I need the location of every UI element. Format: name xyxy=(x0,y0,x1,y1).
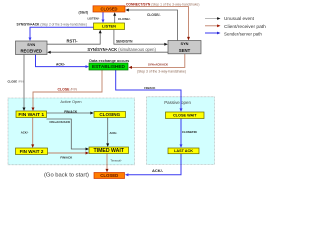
svg-text:ACK/-: ACK/- xyxy=(152,168,164,173)
svg-text:SYN+ACK/ACK: SYN+ACK/ACK xyxy=(148,63,168,67)
svg-text:Unusual event: Unusual event xyxy=(224,16,255,21)
svg-text:SYN/SYN+ACK: SYN/SYN+ACK xyxy=(87,47,117,52)
svg-text:FIN/ACK: FIN/ACK xyxy=(64,110,78,114)
svg-text:FIN WAIT 1: FIN WAIT 1 xyxy=(18,112,44,118)
svg-text:/FIN: /FIN xyxy=(18,80,23,84)
svg-text:CLOSE/FIN: CLOSE/FIN xyxy=(182,130,197,134)
svg-text:SYN/SYN+ACK: SYN/SYN+ACK xyxy=(17,23,41,27)
svg-text:Sender/server path: Sender/server path xyxy=(224,31,262,36)
svg-text:SENT: SENT xyxy=(179,48,191,53)
svg-text:CLOSED: CLOSED xyxy=(101,6,118,11)
svg-text:RST/-: RST/- xyxy=(67,38,79,43)
svg-text:ACK/-: ACK/- xyxy=(21,130,29,134)
svg-text:FIN/ACK: FIN/ACK xyxy=(60,156,73,160)
svg-text:(simultaneous open): (simultaneous open) xyxy=(118,47,156,52)
svg-text:CLOSED: CLOSED xyxy=(100,173,118,178)
svg-text:ACK/-: ACK/- xyxy=(56,62,65,66)
svg-text:Client/receiver path: Client/receiver path xyxy=(224,24,266,30)
svg-text:(Go back to start): (Go back to start) xyxy=(44,173,89,179)
svg-text:CONNECT/SYN: CONNECT/SYN xyxy=(126,2,151,6)
svg-text:TIMED WAIT: TIMED WAIT xyxy=(94,148,125,154)
svg-text:/FIN: /FIN xyxy=(70,88,77,92)
svg-text:CLOSE: CLOSE xyxy=(8,80,18,84)
svg-text:LISTEN/-: LISTEN/- xyxy=(88,16,100,20)
svg-text:CLOSE/-: CLOSE/- xyxy=(118,17,130,21)
svg-text:CLOSE/-: CLOSE/- xyxy=(147,13,161,17)
svg-text:ESTABLISHED: ESTABLISHED xyxy=(92,64,126,70)
svg-text:CLOSING: CLOSING xyxy=(99,112,120,117)
svg-text:(Step 1 of the 3-way-handshake: (Step 1 of the 3-way-handshake) xyxy=(151,2,199,6)
svg-text:(Step 2 of the 3-way-handshake: (Step 2 of the 3-way-handshake) xyxy=(40,23,86,27)
svg-text:LAST ACK: LAST ACK xyxy=(174,149,193,153)
svg-text:Active Open: Active Open xyxy=(60,99,81,104)
svg-text:LISTEN: LISTEN xyxy=(102,24,116,29)
svg-text:ACK/-: ACK/- xyxy=(110,131,118,135)
svg-text:(Step 3 of the 3-way-handshake: (Step 3 of the 3-way-handshake) xyxy=(137,70,186,74)
svg-text:FIN+ACK/ACK: FIN+ACK/ACK xyxy=(50,120,72,124)
svg-text:Data exchange occurs: Data exchange occurs xyxy=(89,59,129,63)
svg-text:CLOSE WAIT: CLOSE WAIT xyxy=(173,114,197,118)
svg-text:FIN/ACK: FIN/ACK xyxy=(144,86,155,90)
svg-text:RECEIVED: RECEIVED xyxy=(21,49,42,54)
svg-text:SYN: SYN xyxy=(27,42,35,47)
svg-text:Passive open: Passive open xyxy=(164,100,191,105)
svg-text:CLOSE: CLOSE xyxy=(58,88,71,92)
svg-text:(Start): (Start) xyxy=(79,11,88,15)
svg-text:SEND/SYN: SEND/SYN xyxy=(116,39,133,43)
svg-text:FIN WAIT 2: FIN WAIT 2 xyxy=(20,149,44,154)
svg-text:Timeout/-: Timeout/- xyxy=(110,159,122,163)
svg-text:SYN: SYN xyxy=(181,41,189,46)
